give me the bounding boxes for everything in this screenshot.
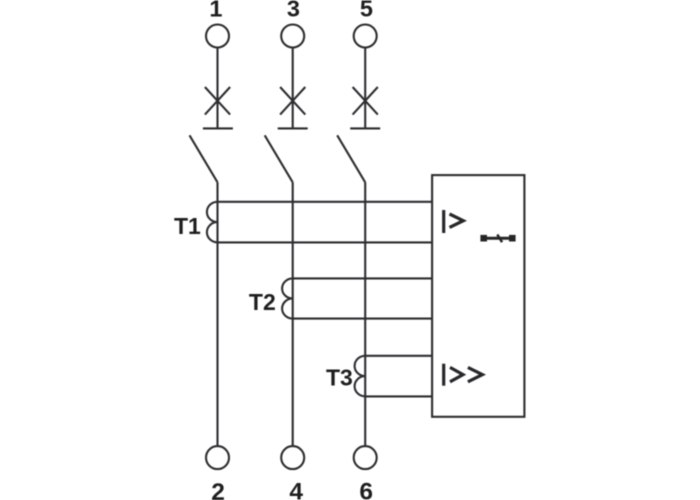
fixed contact bar pole2: [278, 127, 308, 129]
terminal circle 3: [281, 25, 304, 48]
wire T1 bottom to trip unit: [218, 241, 433, 243]
wire pole1 lower: [216, 182, 218, 446]
breaker function cross pole1: [205, 87, 230, 115]
wire pole2 lower: [292, 182, 294, 446]
wire T3 bottom to trip unit: [365, 395, 432, 397]
svg-text:5: 5: [360, 0, 373, 22]
svg-text:T2: T2: [249, 289, 276, 315]
coil T3: [355, 356, 366, 397]
overload release symbol I>: [444, 210, 464, 233]
coil T2: [282, 278, 293, 318]
trip unit box U1: [432, 175, 524, 417]
svg-text:1: 1: [209, 0, 222, 22]
wire T2 bottom to trip unit: [293, 318, 432, 320]
terminal circle 4: [281, 446, 304, 469]
terminal circle 6: [354, 446, 377, 469]
svg-text:6: 6: [359, 478, 373, 500]
wire pole3 lower: [364, 182, 366, 446]
svg-text:3: 3: [287, 0, 300, 22]
terminal circle 5: [354, 25, 377, 48]
breaker function cross pole3: [353, 87, 378, 115]
fixed contact bar pole3: [350, 127, 380, 129]
short-circuit release symbol I>>: [444, 364, 483, 386]
mechanical latch symbol: [480, 235, 515, 243]
coil T1: [207, 202, 218, 243]
terminal circle 2: [206, 446, 229, 469]
switch blade pole3: [337, 135, 365, 182]
switch blade pole1: [190, 135, 218, 182]
breaker function cross pole2: [280, 87, 305, 115]
svg-text:T1: T1: [174, 213, 201, 239]
wire pole1 upper stub: [216, 48, 218, 128]
svg-text:2: 2: [211, 479, 225, 500]
wire pole3 upper stub: [364, 48, 366, 128]
wire T1 top to trip unit: [218, 201, 433, 203]
fixed contact bar pole1: [203, 127, 233, 129]
wire pole2 upper stub: [292, 48, 294, 128]
terminal circle 1: [206, 25, 229, 48]
svg-text:T3: T3: [326, 365, 353, 391]
svg-text:4: 4: [289, 478, 303, 500]
wire T3 top to trip unit: [365, 355, 432, 357]
switch blade pole2: [265, 135, 293, 182]
wire T2 top to trip unit: [293, 277, 432, 279]
